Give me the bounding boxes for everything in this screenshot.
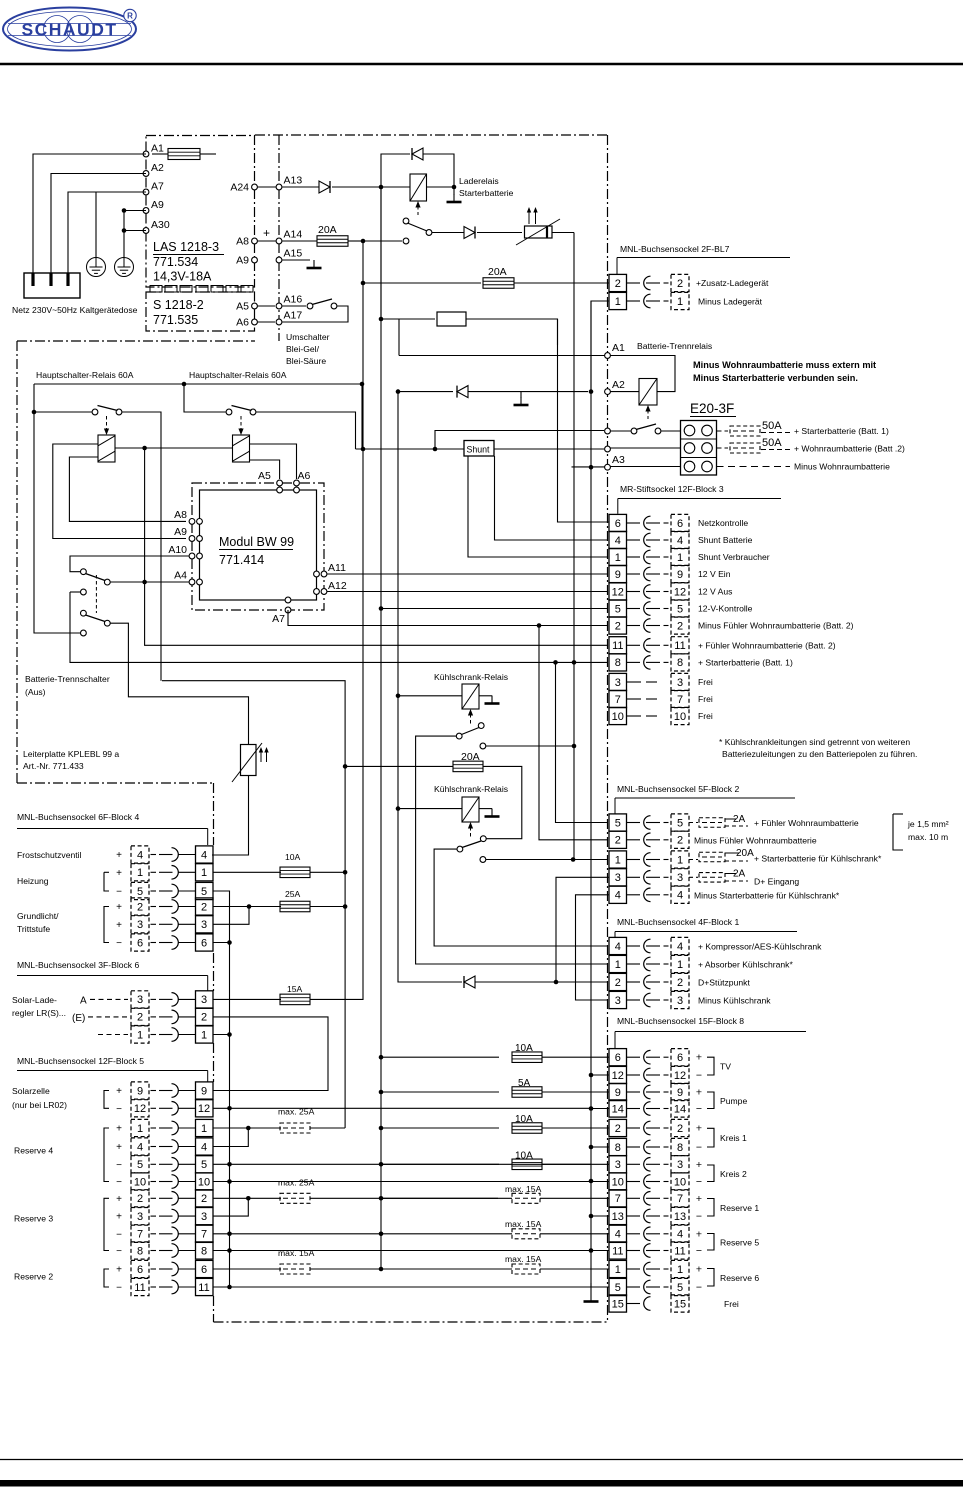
wire A2 row with coil — [589, 389, 594, 394]
connector B8 pin 14 — [609, 1100, 627, 1117]
wire switch to E20 — [661, 430, 680, 432]
strap B5 2-3 — [246, 1196, 251, 1201]
svg-text:A2: A2 — [612, 379, 625, 391]
svg-text:+ Wohnraumbatterie (Batt .2): + Wohnraumbatterie (Batt .2) — [794, 444, 905, 454]
connector B4 pin 4 — [131, 846, 149, 863]
svg-text:Frei: Frei — [698, 694, 713, 704]
contact pole1 b — [81, 589, 87, 595]
terminal A8 right — [252, 238, 258, 244]
bracket Solarzelle — [104, 1091, 109, 1109]
wire left frame to contact — [34, 412, 81, 633]
svg-text:+: + — [263, 226, 270, 240]
terminal A1 frame — [605, 353, 611, 359]
svg-text:6: 6 — [615, 1052, 621, 1064]
svg-text:1: 1 — [677, 854, 683, 866]
connector B5 pin 11 — [131, 1278, 149, 1295]
wire A7 to MR2 — [288, 610, 607, 626]
svg-text:13: 13 — [674, 1211, 686, 1223]
svg-text:−: − — [116, 887, 122, 898]
svg-text:Minus Ladegerät: Minus Ladegerät — [698, 297, 763, 307]
svg-text:−: − — [116, 938, 122, 949]
wire minus bus v591 — [590, 301, 592, 1287]
ground K2 — [479, 808, 492, 810]
wire BL7 pin1 to minus bus — [591, 301, 609, 389]
svg-text:Pumpe: Pumpe — [720, 1096, 747, 1106]
strap B4 5-6 — [213, 891, 230, 943]
terminal A16 — [276, 303, 282, 309]
wire MR5 row — [381, 608, 607, 610]
wire A11 to MR9 — [327, 573, 607, 575]
wire A24-A13 — [258, 186, 277, 188]
svg-text:4: 4 — [137, 1141, 143, 1153]
connector MR pin 10 — [609, 707, 627, 724]
switch Hauptschalter 2 — [226, 409, 232, 415]
svg-text:A14: A14 — [284, 229, 303, 241]
svg-text:−: − — [696, 1176, 702, 1188]
relay Hauptschalter 1 — [98, 435, 115, 462]
svg-text:+: + — [696, 1228, 702, 1240]
svg-text:A9: A9 — [174, 526, 187, 538]
frame bottom edge — [214, 1321, 608, 1323]
svg-text:5: 5 — [137, 1159, 143, 1171]
svg-text:3: 3 — [677, 872, 683, 884]
svg-text:3: 3 — [615, 677, 621, 689]
svg-text:Kreis 1: Kreis 1 — [720, 1133, 747, 1143]
LAS-S connector pin row — [150, 286, 162, 293]
svg-text:9: 9 — [201, 1085, 207, 1097]
wire B5-5 minus row — [213, 1163, 591, 1165]
svg-text:1: 1 — [137, 1029, 143, 1041]
svg-text:771.535: 771.535 — [153, 313, 198, 327]
svg-text:1: 1 — [615, 959, 621, 971]
wire switch1 out — [122, 412, 161, 681]
svg-text:A12: A12 — [328, 580, 347, 592]
connector B1 pin 2 — [609, 973, 627, 990]
bracket Kreis 2 — [707, 1165, 714, 1182]
svg-text:771.414: 771.414 — [219, 553, 264, 567]
connector B5 pin 7 — [131, 1225, 149, 1242]
wire B8-10 stub — [591, 1181, 609, 1183]
svg-text:Grundlicht/: Grundlicht/ — [17, 911, 59, 921]
frame S box — [146, 292, 255, 331]
svg-text:Hauptschalter-Relais 60A: Hauptschalter-Relais 60A — [36, 370, 134, 380]
connector BL7 pin 2 — [609, 274, 627, 291]
wire y384 row to v363 — [361, 384, 363, 449]
svg-text:+ Fühler Wohnraumbatterie (Bat: + Fühler Wohnraumbatterie (Batt. 2) — [698, 641, 836, 651]
svg-text:9: 9 — [677, 569, 683, 581]
connector B5 pin 8 — [131, 1242, 149, 1259]
svg-text:max. 25A: max. 25A — [278, 1178, 315, 1188]
connector MR pin 6 — [609, 514, 627, 531]
arrows charge element — [528, 210, 530, 224]
control line Laderelais switch — [417, 206, 419, 215]
svg-text:7: 7 — [137, 1229, 143, 1241]
svg-text:12-V-Kontrolle: 12-V-Kontrolle — [698, 604, 753, 614]
svg-text:+ Kompressor/AES-Kühlschrank: + Kompressor/AES-Kühlschrank — [698, 942, 822, 952]
connector B5 pin 10 — [131, 1173, 149, 1190]
connector MR pin 8 — [609, 654, 627, 671]
svg-text:D+Stützpunkt: D+Stützpunkt — [698, 978, 750, 988]
wire minus wohnraum dashes — [717, 466, 791, 468]
connector B2 pin 5 — [609, 814, 627, 831]
svg-text:Solarzelle: Solarzelle — [12, 1086, 50, 1096]
svg-text:A4: A4 — [174, 570, 187, 582]
svg-text:Frei: Frei — [698, 711, 713, 721]
svg-text:10: 10 — [612, 1176, 624, 1188]
wire A2 to mains — [51, 174, 146, 274]
connector MR pin 5 — [609, 600, 627, 617]
svg-text:15: 15 — [674, 1298, 686, 1310]
svg-text:11: 11 — [674, 640, 685, 652]
svg-text:max. 10 m: max. 10 m — [908, 832, 948, 842]
svg-text:+Zusatz-Ladegerät: +Zusatz-Ladegerät — [696, 278, 769, 288]
wire A5-A16 — [258, 305, 276, 307]
svg-text:2: 2 — [677, 278, 683, 290]
svg-text:A3: A3 — [612, 454, 625, 466]
svg-text:−: − — [696, 1070, 702, 1082]
top rule — [0, 63, 963, 66]
terminal A15 — [276, 257, 282, 263]
wire v556 netzkontrolle — [558, 345, 610, 522]
svg-text:A7: A7 — [272, 613, 285, 625]
svg-text:1: 1 — [677, 552, 683, 564]
connector B1 pin 4 — [609, 937, 627, 954]
wire bus v381 from A13 — [380, 187, 382, 1270]
svg-text:−: − — [696, 1142, 702, 1154]
svg-text:A7: A7 — [151, 181, 164, 193]
frame middle column A13-A17 — [278, 135, 280, 341]
svg-text:+: + — [116, 1124, 122, 1135]
svg-text:2: 2 — [615, 977, 621, 989]
svg-text:A17: A17 — [284, 310, 303, 322]
switch Trennrelais — [631, 428, 637, 434]
svg-text:9: 9 — [137, 1085, 143, 1097]
svg-text:+: + — [696, 1123, 702, 1135]
wire HS1 coil right bus — [115, 447, 232, 449]
svg-text:5: 5 — [615, 603, 621, 615]
svg-text:Reserve 5: Reserve 5 — [720, 1237, 759, 1247]
svg-text:+: + — [116, 920, 122, 931]
connector B2 pin 3 — [609, 869, 627, 886]
svg-text:Art.-Nr. 771.433: Art.-Nr. 771.433 — [23, 761, 84, 771]
svg-text:LAS 1218-3: LAS 1218-3 — [153, 240, 219, 254]
relay Batterie-Trennrelais — [639, 379, 657, 406]
switch K1 — [478, 723, 484, 729]
svg-text:Trittstufe: Trittstufe — [17, 924, 50, 934]
wire v70 starter row — [70, 592, 607, 662]
svg-text:6: 6 — [677, 518, 683, 530]
svg-text:10: 10 — [134, 1176, 146, 1188]
svg-text:5: 5 — [615, 1282, 621, 1294]
connector MR pin 12 — [609, 583, 627, 600]
svg-text:2: 2 — [201, 901, 207, 913]
svg-text:8: 8 — [677, 1142, 683, 1154]
wire shunt row — [356, 448, 465, 450]
frame LAS box — [146, 136, 255, 288]
wire top feed row — [34, 383, 360, 385]
svg-text:+: + — [696, 1264, 702, 1276]
svg-text:MNL-Buchsensockel 3F-Block 6: MNL-Buchsensockel 3F-Block 6 — [17, 960, 139, 970]
wire A1 to mains — [33, 154, 146, 273]
svg-text:50A: 50A — [762, 437, 782, 449]
svg-text:2: 2 — [677, 835, 683, 847]
wire v539 A7 to B2-2 — [539, 626, 607, 840]
svg-text:8: 8 — [677, 657, 683, 669]
svg-text:−: − — [116, 1104, 122, 1115]
svg-text:6: 6 — [137, 1264, 143, 1276]
wire HS1 coil left loop to A9 — [53, 444, 186, 539]
svg-text:1: 1 — [201, 1123, 207, 1135]
svg-text:2: 2 — [137, 1193, 143, 1205]
contact pole2 b — [81, 630, 87, 636]
svg-text:12: 12 — [674, 1070, 686, 1082]
connector BL7 pin 1 — [609, 292, 627, 309]
earth ground 2 — [115, 258, 134, 277]
connector B5 pin 12 — [131, 1100, 149, 1117]
svg-text:12 V Aus: 12 V Aus — [698, 587, 732, 597]
control line HS2 — [240, 416, 242, 430]
svg-text:771.534: 771.534 — [153, 255, 198, 269]
relay Hauptschalter 2 — [233, 435, 250, 462]
bracket je 1,5mm2 — [893, 813, 903, 815]
connector B1 pin 1 — [609, 955, 627, 972]
svg-text:Minus Fühler Wohnraumbatterie: Minus Fühler Wohnraumbatterie — [694, 836, 817, 846]
bracket Reserve 5 — [707, 1234, 714, 1251]
terminal A9 — [143, 208, 149, 214]
svg-text:A1: A1 — [151, 143, 164, 155]
svg-text:3: 3 — [615, 872, 621, 884]
switch Hauptschalter 1 — [92, 409, 98, 415]
svg-text:1: 1 — [615, 552, 621, 564]
strap B5 1-4 — [246, 1126, 251, 1131]
wire switch2 feed — [184, 384, 226, 412]
connector B8 pin 6 — [609, 1049, 627, 1066]
svg-text:Kühlschrank-Relais: Kühlschrank-Relais — [434, 672, 508, 682]
svg-text:(Aus): (Aus) — [25, 687, 46, 697]
svg-text:E20-3F: E20-3F — [690, 401, 734, 416]
svg-text:10: 10 — [674, 711, 686, 723]
svg-text:+: + — [116, 902, 122, 913]
svg-text:Shunt Verbraucher: Shunt Verbraucher — [698, 552, 770, 562]
svg-text:2: 2 — [615, 835, 621, 847]
connector B5 pin 4 — [131, 1138, 149, 1155]
svg-text:+: + — [116, 1194, 122, 1205]
wire B8-8 stub — [591, 1146, 609, 1148]
svg-text:−: − — [696, 1245, 702, 1257]
svg-text:(E): (E) — [72, 1013, 85, 1024]
svg-text:5: 5 — [677, 817, 683, 829]
svg-text:Reserve 4: Reserve 4 — [14, 1146, 53, 1156]
bracket Reserve 6 — [707, 1269, 714, 1287]
connector B4 pin 2 — [131, 898, 149, 915]
wire A7 to mains — [68, 192, 146, 273]
connector B8 pin 8 — [609, 1138, 627, 1155]
wire earth branch — [95, 192, 97, 258]
svg-text:2A: 2A — [733, 814, 746, 825]
svg-text:3: 3 — [201, 994, 207, 1006]
module BW99 outer frame — [192, 483, 324, 610]
svg-text:3: 3 — [201, 919, 207, 931]
svg-text:5: 5 — [677, 1282, 683, 1294]
connector B1 pin 3 — [609, 991, 627, 1008]
svg-text:3: 3 — [615, 995, 621, 1007]
terminal A30 — [143, 228, 149, 234]
diode D2 bypass — [381, 154, 410, 187]
fuse 20A kühlschrank starter — [689, 859, 698, 861]
wire netzkontrolle lamp row — [381, 187, 435, 319]
strap B4 2-3 — [247, 904, 252, 909]
svg-text:A13: A13 — [284, 175, 303, 187]
svg-text:1: 1 — [201, 867, 207, 879]
svg-text:1: 1 — [137, 867, 143, 879]
svg-text:5: 5 — [677, 603, 683, 615]
terminal A13 — [276, 184, 282, 190]
bracket Grundlicht — [104, 907, 109, 943]
connector B6 pin 3 — [131, 991, 149, 1008]
connector B6 pin 2 — [131, 1008, 149, 1025]
svg-text:TV: TV — [720, 1062, 731, 1072]
terminal A24 right — [252, 184, 258, 190]
svg-text:2: 2 — [615, 1123, 621, 1135]
indicator box — [437, 312, 466, 326]
earth ground 1 — [87, 258, 106, 277]
svg-text:Shunt Batterie: Shunt Batterie — [698, 535, 753, 545]
bottom rule — [0, 1480, 963, 1487]
wire shunt verbraucher to MR1 — [468, 456, 607, 557]
terminal A2 — [143, 171, 149, 177]
wire frame to switch — [605, 428, 611, 434]
junction A13 node — [379, 185, 384, 190]
svg-text:Reserve 1: Reserve 1 — [720, 1203, 759, 1213]
svg-text:1: 1 — [677, 1264, 683, 1276]
svg-text:7: 7 — [677, 1193, 683, 1205]
svg-text:+: + — [696, 1052, 702, 1064]
svg-text:−: − — [116, 1177, 122, 1188]
relay Kühlschrank 1 — [398, 695, 462, 697]
wire A3 minus row — [572, 466, 606, 468]
svg-text:je 1,5 mm²: je 1,5 mm² — [907, 819, 949, 829]
frame top edge — [255, 134, 608, 136]
connector MR pin 7 — [609, 690, 627, 707]
connector B8 pin 9 — [609, 1083, 627, 1100]
svg-text:20A: 20A — [318, 224, 337, 236]
svg-text:11: 11 — [612, 640, 623, 652]
svg-text:3: 3 — [137, 994, 143, 1006]
thermal element KPLE — [241, 745, 257, 776]
wire A9-A30 strap to earth — [124, 210, 146, 212]
wire B6-1 to minus bus — [213, 1034, 230, 1036]
connector MR pin 3 — [609, 673, 627, 690]
svg-text:7: 7 — [201, 1229, 207, 1241]
svg-text:12: 12 — [674, 586, 686, 598]
terminal open A14 — [403, 238, 409, 244]
svg-text:2: 2 — [677, 977, 683, 989]
svg-text:Umschalter: Umschalter — [286, 332, 330, 342]
switch Laderelais — [403, 218, 409, 224]
terminal A2 frame — [605, 389, 611, 395]
wire relay junction down to A4 and pin11 — [145, 448, 607, 645]
svg-text:Blei-Gel/: Blei-Gel/ — [286, 344, 320, 354]
contact K2 b row to B2-1 — [480, 857, 486, 863]
svg-text:Solar-Lade-: Solar-Lade- — [12, 995, 57, 1005]
svg-text:3: 3 — [201, 1211, 207, 1223]
svg-text:Minus Starterbatterie für Kühl: Minus Starterbatterie für Kühlschrank* — [694, 891, 840, 901]
svg-text:Modul BW 99: Modul BW 99 — [219, 535, 294, 549]
connector B2 pin 1 — [609, 851, 627, 868]
svg-text:1: 1 — [615, 296, 621, 308]
svg-text:Minus Fühler Wohnraumbatterie: Minus Fühler Wohnraumbatterie (Batt. 2) — [698, 621, 854, 631]
svg-text:Batterie-Trennrelais: Batterie-Trennrelais — [637, 341, 712, 351]
junction A14 node — [361, 239, 366, 244]
svg-text:A5: A5 — [236, 301, 249, 313]
svg-text:1: 1 — [615, 854, 621, 866]
Netz connector box — [24, 273, 80, 298]
svg-text:7: 7 — [615, 1193, 621, 1205]
svg-text:A9: A9 — [236, 255, 249, 267]
svg-text:1: 1 — [677, 959, 683, 971]
connector B4 pin 1 — [131, 864, 149, 881]
svg-text:14: 14 — [612, 1103, 624, 1115]
connector B4 pin 6 — [131, 934, 149, 951]
svg-text:max. 15A: max. 15A — [505, 1254, 542, 1264]
svg-text:max. 25A: max. 25A — [278, 1107, 315, 1117]
svg-text:12 V Ein: 12 V Ein — [698, 569, 731, 579]
frame segment between left blocks — [213, 953, 215, 991]
svg-text:A30: A30 — [151, 219, 170, 231]
bracket Reserve 1 — [707, 1199, 714, 1217]
control line HS1 — [106, 416, 108, 430]
svg-text:Minus Starterbatterie verbunde: Minus Starterbatterie verbunden sein. — [693, 373, 858, 383]
svg-text:4: 4 — [677, 890, 683, 902]
wire E20 switch feed — [435, 431, 604, 450]
svg-text:5: 5 — [201, 886, 207, 898]
bracket TV — [707, 1057, 714, 1075]
fuse internal A1 — [152, 153, 168, 155]
svg-text:Hauptschalter-Relais 60A: Hauptschalter-Relais 60A — [189, 370, 287, 380]
svg-text:regler LR(S)...: regler LR(S)... — [12, 1008, 66, 1018]
wire B5-12 minus row — [213, 1107, 591, 1109]
wire B8-5 stub — [591, 1286, 609, 1288]
bottom thin rule — [0, 1459, 963, 1461]
svg-text:3: 3 — [137, 919, 143, 931]
junction Laderelais right — [452, 185, 457, 190]
svg-text:4: 4 — [137, 849, 143, 861]
switch Trennschalter pole2 — [81, 610, 87, 616]
svg-text:20A: 20A — [736, 848, 754, 859]
wire A13 row — [282, 186, 319, 188]
wire HS2 right to A6 — [250, 444, 297, 479]
svg-text:Batterie-Trennschalter: Batterie-Trennschalter — [25, 674, 110, 684]
svg-text:−: − — [116, 1229, 122, 1240]
svg-text:Reserve 6: Reserve 6 — [720, 1273, 759, 1283]
connector B8 pin 10 — [609, 1173, 627, 1190]
terminal A17 — [276, 319, 282, 325]
svg-text:−: − — [696, 1282, 702, 1294]
svg-text:A8: A8 — [236, 236, 249, 248]
svg-text:1: 1 — [677, 296, 683, 308]
connector B5 pin 5 — [131, 1156, 149, 1173]
svg-text:Blei-Säure: Blei-Säure — [286, 356, 326, 366]
svg-text:Reserve 2: Reserve 2 — [14, 1272, 53, 1282]
svg-text:max. 15A: max. 15A — [278, 1248, 315, 1258]
element charge regulator — [525, 226, 553, 238]
svg-text:3: 3 — [677, 677, 683, 689]
terminal A14 — [276, 238, 282, 244]
svg-text:10: 10 — [198, 1176, 210, 1188]
connector MR pin 2 — [609, 617, 627, 634]
wire 20A out row — [362, 241, 364, 283]
frame left board outline — [17, 340, 255, 342]
